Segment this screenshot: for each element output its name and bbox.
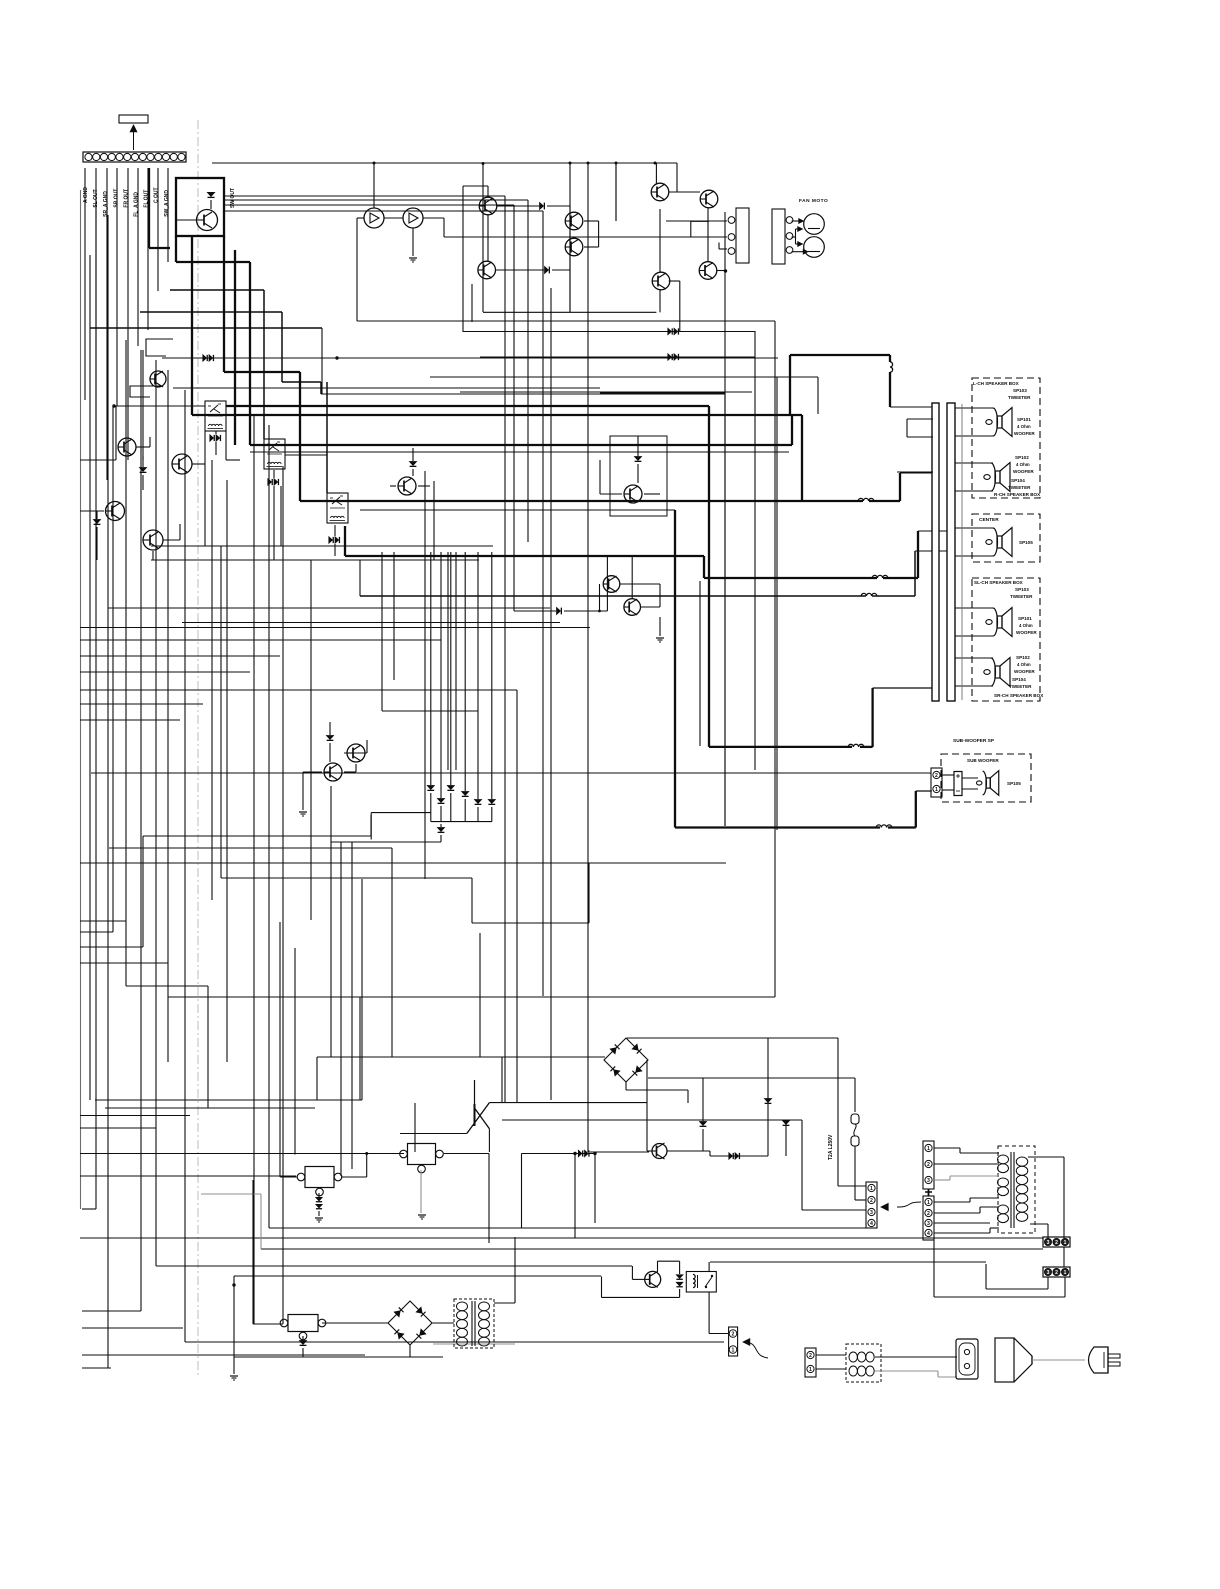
svg-text:WOOFER: WOOFER xyxy=(1016,630,1037,635)
svg-text:A GND: A GND xyxy=(83,187,89,203)
svg-text:2: 2 xyxy=(1055,1240,1058,1246)
svg-text:1: 1 xyxy=(809,1367,812,1373)
svg-text:TWEETER: TWEETER xyxy=(1009,684,1032,689)
svg-text:SUB WOOFER: SUB WOOFER xyxy=(967,758,999,763)
svg-text:2: 2 xyxy=(870,1198,873,1204)
svg-text:TWEETER: TWEETER xyxy=(1010,594,1033,599)
svg-text:1: 1 xyxy=(935,787,938,793)
svg-text:SP104: SP104 xyxy=(1011,478,1025,483)
svg-text:2: 2 xyxy=(1055,1270,1058,1276)
svg-text:3: 3 xyxy=(870,1210,873,1216)
svg-text:WOOFER: WOOFER xyxy=(1014,669,1035,674)
svg-text:FL_A GND: FL_A GND xyxy=(134,192,140,217)
svg-text:SP101: SP101 xyxy=(1018,616,1032,621)
svg-text:4 Ohm: 4 Ohm xyxy=(1016,462,1030,467)
svg-text:2: 2 xyxy=(927,1211,930,1217)
svg-text:TWEETER: TWEETER xyxy=(1008,395,1031,400)
svg-text:4: 4 xyxy=(870,1221,873,1227)
svg-text:4 Ohm: 4 Ohm xyxy=(1017,662,1031,667)
svg-text:WOOFER: WOOFER xyxy=(1013,469,1034,474)
svg-text:2: 2 xyxy=(935,773,938,779)
svg-text:1: 1 xyxy=(870,1186,873,1192)
svg-text:SW_A GND: SW_A GND xyxy=(164,190,170,217)
svg-text:R-CH SPEAKER BOX: R-CH SPEAKER BOX xyxy=(994,492,1041,497)
svg-text:1: 1 xyxy=(1064,1240,1067,1246)
svg-text:SR_A GND: SR_A GND xyxy=(103,191,109,217)
svg-text:SP102: SP102 xyxy=(1015,455,1029,460)
svg-text:4 Ohm: 4 Ohm xyxy=(1017,424,1031,429)
svg-text:SP105: SP105 xyxy=(1007,781,1021,786)
svg-text:2: 2 xyxy=(732,1332,735,1338)
svg-text:1: 1 xyxy=(1064,1270,1067,1276)
svg-text:T2A L250V: T2A L250V xyxy=(828,1134,834,1160)
svg-text:L-CH SPEAKER BOX: L-CH SPEAKER BOX xyxy=(973,381,1020,386)
svg-text:SP105: SP105 xyxy=(1019,540,1033,545)
svg-text:SP103: SP103 xyxy=(1013,388,1027,393)
svg-text:TWEETER: TWEETER xyxy=(1008,485,1031,490)
svg-text:SP104: SP104 xyxy=(1012,677,1026,682)
svg-text:3: 3 xyxy=(927,1178,930,1184)
svg-text:C OUT: C OUT xyxy=(154,187,160,203)
svg-text:3: 3 xyxy=(1047,1240,1050,1246)
svg-text:1: 1 xyxy=(927,1200,930,1206)
svg-text:SP102: SP102 xyxy=(1016,655,1030,660)
svg-text:3: 3 xyxy=(1047,1270,1050,1276)
svg-text:3: 3 xyxy=(927,1221,930,1227)
svg-text:4 Ohm: 4 Ohm xyxy=(1019,623,1033,628)
svg-text:2: 2 xyxy=(809,1353,812,1359)
svg-text:SR-CH SPEAKER BOX: SR-CH SPEAKER BOX xyxy=(994,693,1044,698)
svg-text:CENTER: CENTER xyxy=(979,517,999,523)
svg-text:4: 4 xyxy=(927,1231,930,1237)
svg-text:SUB-WOOFER SP: SUB-WOOFER SP xyxy=(953,738,995,744)
svg-text:2: 2 xyxy=(927,1162,930,1168)
svg-text:SP101: SP101 xyxy=(1017,417,1031,422)
svg-text:WOOFER: WOOFER xyxy=(1014,431,1035,436)
svg-text:SP103: SP103 xyxy=(1015,587,1029,592)
svg-text:FAN MOTO: FAN MOTO xyxy=(799,198,828,204)
svg-text:SR OUT: SR OUT xyxy=(113,189,119,208)
svg-text:1: 1 xyxy=(732,1348,735,1354)
svg-text:SL-CH SPEAKER BOX: SL-CH SPEAKER BOX xyxy=(974,580,1024,585)
svg-text:1: 1 xyxy=(927,1146,930,1152)
